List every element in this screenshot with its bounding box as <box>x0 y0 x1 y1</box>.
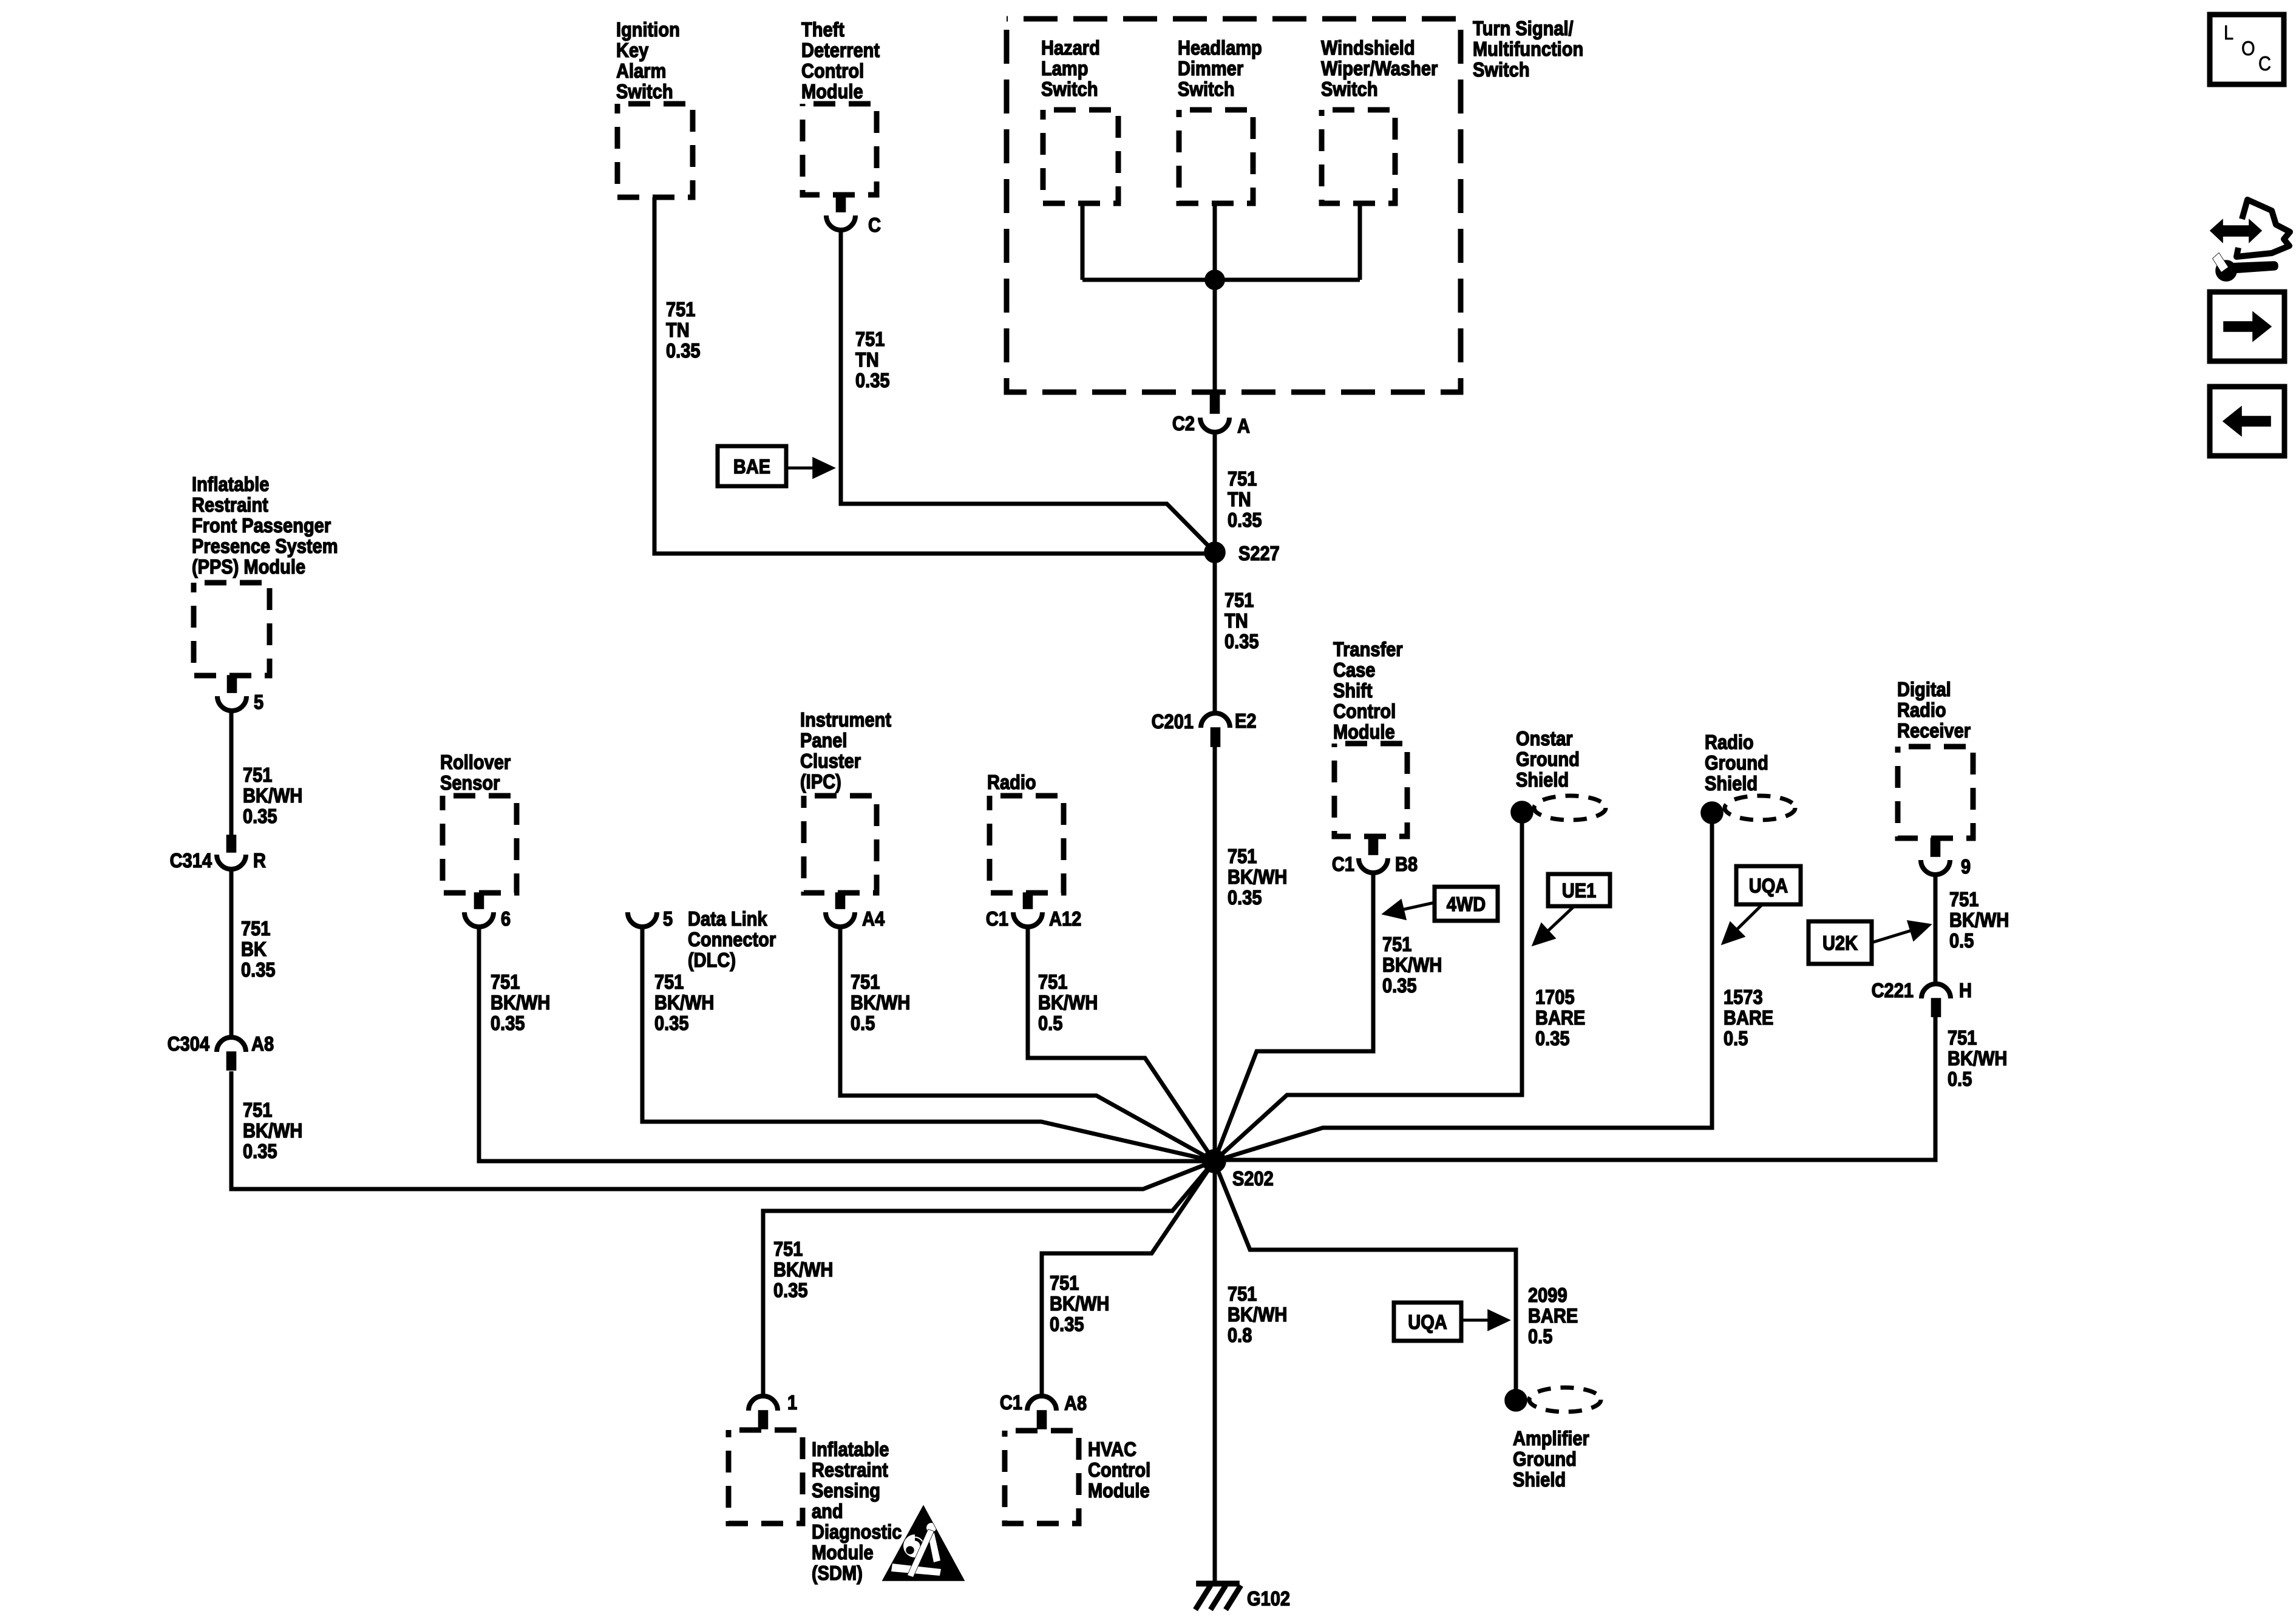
svg-text:Restraint: Restraint <box>812 1459 888 1481</box>
svg-text:HVAC: HVAC <box>1088 1438 1136 1460</box>
svg-text:751: 751 <box>851 971 880 993</box>
svg-text:Control: Control <box>801 59 864 82</box>
svg-text:BK: BK <box>241 938 267 960</box>
svg-text:Case: Case <box>1333 659 1375 681</box>
svg-text:751: 751 <box>243 764 272 786</box>
svg-text:U2K: U2K <box>1822 932 1858 954</box>
svg-text:751: 751 <box>654 971 684 993</box>
svg-text:Connector: Connector <box>688 928 776 951</box>
svg-text:Instrument: Instrument <box>800 708 891 731</box>
svg-text:0.35: 0.35 <box>1382 974 1417 997</box>
svg-text:S227: S227 <box>1238 542 1280 564</box>
svg-text:751: 751 <box>1228 1283 1257 1305</box>
svg-text:BK/WH: BK/WH <box>1948 1047 2007 1069</box>
svg-text:0.5: 0.5 <box>1948 1068 1972 1090</box>
svg-text:C: C <box>2258 52 2271 75</box>
svg-text:751: 751 <box>1228 845 1257 867</box>
svg-text:S202: S202 <box>1232 1167 1274 1190</box>
svg-text:Shift: Shift <box>1333 679 1373 702</box>
svg-text:G102: G102 <box>1247 1587 1290 1610</box>
svg-text:Inflatable: Inflatable <box>812 1438 889 1460</box>
svg-text:Cluster: Cluster <box>800 750 861 772</box>
svg-text:BAE: BAE <box>733 455 770 478</box>
svg-text:0.35: 0.35 <box>243 805 277 827</box>
svg-text:(DLC): (DLC) <box>688 949 736 971</box>
svg-text:0.35: 0.35 <box>773 1279 808 1301</box>
svg-text:BK/WH: BK/WH <box>1228 866 1287 888</box>
svg-text:751: 751 <box>855 328 885 350</box>
svg-text:Restraint: Restraint <box>192 493 268 516</box>
svg-text:751: 751 <box>1949 888 1978 910</box>
svg-text:Presence System: Presence System <box>192 535 338 557</box>
svg-text:C: C <box>868 214 881 236</box>
svg-text:UQA: UQA <box>1749 875 1788 897</box>
svg-text:C304: C304 <box>168 1032 210 1055</box>
svg-text:Alarm: Alarm <box>616 59 666 82</box>
svg-text:751: 751 <box>1038 971 1067 993</box>
svg-text:C201: C201 <box>1152 710 1194 733</box>
svg-text:A: A <box>1237 415 1250 437</box>
svg-text:5: 5 <box>663 907 673 930</box>
svg-text:A8: A8 <box>1064 1392 1087 1414</box>
svg-text:Ground: Ground <box>1516 748 1580 770</box>
svg-text:Radio: Radio <box>1705 731 1754 753</box>
svg-text:A8: A8 <box>251 1032 274 1055</box>
svg-text:(IPC): (IPC) <box>800 770 841 793</box>
svg-text:BK/WH: BK/WH <box>1228 1303 1287 1326</box>
svg-text:Switch: Switch <box>1041 78 1098 100</box>
svg-text:E2: E2 <box>1235 710 1257 732</box>
svg-text:Inflatable: Inflatable <box>192 473 269 495</box>
svg-text:Amplifier: Amplifier <box>1513 1427 1589 1449</box>
svg-text:C1: C1 <box>1000 1391 1022 1414</box>
svg-text:Rollover: Rollover <box>440 751 511 773</box>
svg-text:0.35: 0.35 <box>1228 509 1262 531</box>
svg-text:C314: C314 <box>170 849 212 872</box>
svg-text:0.35: 0.35 <box>1228 886 1262 909</box>
svg-text:TN: TN <box>1224 609 1248 632</box>
svg-text:1573: 1573 <box>1724 986 1763 1008</box>
svg-text:Control: Control <box>1333 700 1396 722</box>
svg-text:9: 9 <box>1961 855 1971 878</box>
svg-text:Windshield: Windshield <box>1321 36 1415 59</box>
svg-text:BARE: BARE <box>1724 1006 1773 1029</box>
svg-text:0.5: 0.5 <box>851 1012 875 1034</box>
svg-text:0.5: 0.5 <box>1949 929 1974 952</box>
svg-text:(PPS) Module: (PPS) Module <box>192 555 305 578</box>
svg-text:6: 6 <box>501 907 511 930</box>
svg-text:Theft: Theft <box>801 18 844 41</box>
svg-text:751: 751 <box>666 298 695 320</box>
svg-text:751: 751 <box>241 917 270 940</box>
svg-text:Hazard: Hazard <box>1041 36 1100 59</box>
svg-text:5: 5 <box>254 691 263 713</box>
svg-text:Ground: Ground <box>1513 1448 1577 1470</box>
svg-text:0.35: 0.35 <box>491 1012 525 1034</box>
svg-text:BK/WH: BK/WH <box>654 991 714 1014</box>
svg-text:Module: Module <box>1088 1479 1150 1502</box>
svg-text:TN: TN <box>855 348 879 371</box>
svg-text:Radio: Radio <box>1897 699 1946 721</box>
svg-text:BK/WH: BK/WH <box>1382 954 1442 976</box>
svg-text:Ground: Ground <box>1705 751 1768 774</box>
svg-text:BARE: BARE <box>1535 1006 1585 1029</box>
svg-text:BK/WH: BK/WH <box>851 991 910 1014</box>
svg-text:0.35: 0.35 <box>243 1140 277 1162</box>
svg-text:Shield: Shield <box>1516 768 1569 791</box>
svg-text:BARE: BARE <box>1528 1304 1578 1327</box>
svg-text:751: 751 <box>1050 1272 1079 1294</box>
svg-text:Deterrent: Deterrent <box>801 39 880 61</box>
svg-text:751: 751 <box>1224 589 1254 611</box>
svg-text:O: O <box>2241 37 2255 59</box>
svg-text:L: L <box>2224 21 2233 44</box>
svg-text:0.35: 0.35 <box>1224 630 1259 652</box>
svg-text:Key: Key <box>616 39 649 61</box>
svg-text:0.8: 0.8 <box>1228 1324 1252 1346</box>
svg-text:0.35: 0.35 <box>855 369 890 391</box>
svg-text:Sensing: Sensing <box>812 1479 880 1502</box>
svg-text:Switch: Switch <box>616 80 673 103</box>
svg-text:C2: C2 <box>1172 412 1195 435</box>
svg-text:C221: C221 <box>1872 979 1914 1001</box>
svg-text:0.5: 0.5 <box>1528 1325 1552 1347</box>
svg-text:C1: C1 <box>986 907 1008 930</box>
svg-text:751: 751 <box>1228 467 1257 490</box>
svg-text:B8: B8 <box>1395 853 1418 875</box>
svg-text:Front Passenger: Front Passenger <box>192 514 331 537</box>
svg-text:BK/WH: BK/WH <box>1038 991 1098 1014</box>
svg-text:Dimmer: Dimmer <box>1178 57 1243 80</box>
svg-text:Control: Control <box>1088 1459 1150 1481</box>
svg-text:751: 751 <box>491 971 520 993</box>
svg-text:BK/WH: BK/WH <box>1949 909 2009 931</box>
svg-text:751: 751 <box>1948 1026 1977 1049</box>
svg-text:and: and <box>812 1500 843 1522</box>
svg-text:Data Link: Data Link <box>688 907 767 930</box>
svg-text:Module: Module <box>812 1541 874 1564</box>
svg-text:2099: 2099 <box>1528 1284 1567 1306</box>
svg-text:Onstar: Onstar <box>1516 727 1573 750</box>
svg-text:A12: A12 <box>1049 907 1081 930</box>
svg-text:0.35: 0.35 <box>1050 1313 1084 1335</box>
svg-text:1: 1 <box>787 1391 797 1414</box>
svg-text:Ignition: Ignition <box>616 18 680 41</box>
svg-text:Switch: Switch <box>1321 78 1378 100</box>
svg-text:0.5: 0.5 <box>1038 1012 1062 1034</box>
svg-text:Panel: Panel <box>800 729 847 751</box>
svg-text:Switch: Switch <box>1473 58 1530 81</box>
svg-text:UE1: UE1 <box>1562 879 1596 902</box>
svg-text:BK/WH: BK/WH <box>243 1119 302 1142</box>
svg-text:Diagnostic: Diagnostic <box>812 1520 902 1543</box>
svg-text:0.35: 0.35 <box>654 1012 689 1034</box>
svg-text:Shield: Shield <box>1513 1468 1566 1491</box>
svg-text:A4: A4 <box>862 907 885 930</box>
svg-text:TN: TN <box>666 319 690 341</box>
svg-text:4WD: 4WD <box>1447 893 1486 915</box>
svg-text:0.35: 0.35 <box>666 339 701 362</box>
svg-text:BK/WH: BK/WH <box>491 991 550 1014</box>
svg-text:Turn Signal/: Turn Signal/ <box>1473 17 1574 39</box>
svg-text:751: 751 <box>1382 933 1411 955</box>
svg-text:Module: Module <box>801 80 863 103</box>
svg-text:BK/WH: BK/WH <box>773 1258 833 1281</box>
svg-text:Radio: Radio <box>987 771 1036 793</box>
svg-text:Receiver: Receiver <box>1897 719 1971 742</box>
svg-text:Lamp: Lamp <box>1041 57 1088 80</box>
svg-text:Transfer: Transfer <box>1333 638 1403 660</box>
svg-text:751: 751 <box>243 1099 272 1121</box>
svg-text:R: R <box>253 849 266 872</box>
svg-text:Module: Module <box>1333 720 1395 743</box>
svg-text:H: H <box>1959 979 1972 1001</box>
svg-text:0.35: 0.35 <box>241 958 276 981</box>
svg-text:Wiper/Washer: Wiper/Washer <box>1321 57 1438 80</box>
svg-text:Shield: Shield <box>1705 772 1758 795</box>
svg-text:Digital: Digital <box>1897 678 1951 700</box>
svg-text:TN: TN <box>1228 488 1251 510</box>
svg-text:UQA: UQA <box>1408 1311 1447 1334</box>
svg-text:Switch: Switch <box>1178 78 1235 100</box>
svg-text:1705: 1705 <box>1535 986 1575 1008</box>
svg-text:Sensor: Sensor <box>440 771 500 794</box>
svg-text:C1: C1 <box>1332 853 1354 875</box>
svg-text:BK/WH: BK/WH <box>1050 1292 1109 1315</box>
svg-text:0.35: 0.35 <box>1535 1027 1570 1049</box>
svg-text:751: 751 <box>773 1238 803 1260</box>
svg-text:BK/WH: BK/WH <box>243 784 302 807</box>
svg-text:Headlamp: Headlamp <box>1178 36 1262 59</box>
svg-text:Multifunction: Multifunction <box>1473 38 1583 60</box>
svg-text:0.5: 0.5 <box>1724 1027 1748 1049</box>
svg-text:(SDM): (SDM) <box>812 1562 863 1584</box>
